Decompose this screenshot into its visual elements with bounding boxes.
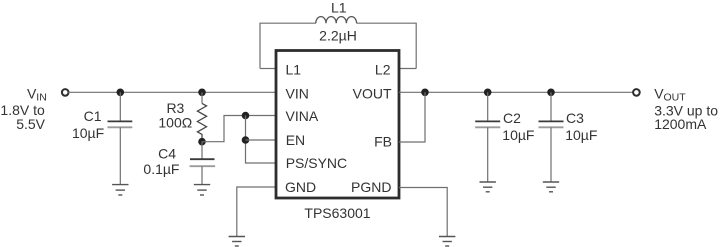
terminal VOUT (output open circle) bbox=[633, 89, 640, 96]
wire VINA pin bbox=[246, 115, 277, 117]
label C4 value bbox=[143, 146, 179, 178]
svg-text:L1: L1 bbox=[286, 61, 302, 77]
svg-text:L2: L2 bbox=[375, 61, 391, 77]
node VIN label bbox=[0, 85, 46, 132]
wire C2 bottom lead bbox=[487, 127, 489, 182]
wire FB feedback bbox=[399, 92, 425, 142]
wire VINA to PS/SYNC vertical bbox=[246, 116, 277, 164]
pin labels left bbox=[285, 61, 347, 195]
svg-text:2.2µH: 2.2µH bbox=[319, 28, 357, 44]
terminal VIN (input open circle) bbox=[62, 89, 69, 96]
svg-text:C2: C2 bbox=[503, 110, 521, 126]
wire EN pin bbox=[246, 139, 277, 141]
wire L1 pin bbox=[260, 68, 276, 70]
svg-text:EN: EN bbox=[286, 132, 305, 148]
resistor R3 bbox=[197, 103, 206, 141]
svg-text:10µF: 10µF bbox=[502, 127, 534, 143]
label C3 value bbox=[565, 110, 597, 143]
svg-text:PGND: PGND bbox=[351, 179, 391, 195]
svg-text:100Ω: 100Ω bbox=[158, 115, 192, 131]
svg-text:VIN: VIN bbox=[286, 85, 309, 101]
wire inductor loop right bbox=[357, 23, 417, 68]
svg-text:10µF: 10µF bbox=[72, 125, 104, 141]
label C1 value bbox=[72, 108, 104, 141]
wire C2 top lead bbox=[487, 92, 489, 121]
svg-text:PS/SYNC: PS/SYNC bbox=[286, 155, 347, 171]
junction dot C1/VIN bbox=[117, 89, 125, 97]
label R3 value bbox=[158, 100, 192, 131]
capacitor C3 bbox=[539, 121, 564, 127]
svg-text:10µF: 10µF bbox=[565, 127, 597, 143]
svg-text:C4: C4 bbox=[158, 146, 176, 162]
ground (C3) bbox=[543, 182, 559, 192]
label C2 value bbox=[502, 110, 534, 143]
inductor L1 bbox=[316, 17, 357, 24]
ground (C1) bbox=[112, 185, 128, 195]
wire GND pin bbox=[237, 187, 276, 237]
svg-text:0.1µF: 0.1µF bbox=[143, 161, 179, 177]
wire inductor loop left bbox=[260, 23, 316, 68]
wire C3 bottom lead bbox=[550, 127, 552, 182]
svg-text:C3: C3 bbox=[566, 110, 584, 126]
svg-text:VOUT: VOUT bbox=[353, 85, 392, 101]
junction dot EN bbox=[242, 136, 250, 144]
svg-text:GND: GND bbox=[285, 179, 316, 195]
junction dot R3/VIN bbox=[198, 89, 206, 97]
pin labels right bbox=[351, 61, 392, 195]
wire PGND pin bbox=[399, 188, 447, 237]
wire C1 top lead bbox=[119, 92, 121, 121]
capacitor C4 bbox=[190, 159, 216, 166]
svg-text:VINA: VINA bbox=[286, 108, 319, 124]
ground (C2) bbox=[480, 182, 496, 192]
wire VOUT rail bbox=[399, 91, 633, 93]
svg-text:TPS63001: TPS63001 bbox=[304, 205, 370, 221]
ground (C4) bbox=[194, 185, 210, 195]
wire C3 top lead bbox=[550, 92, 552, 121]
wire R3 top lead bbox=[201, 92, 203, 103]
junction dot C2/VOUT bbox=[484, 89, 492, 97]
capacitor C1 bbox=[108, 121, 133, 127]
ground (GND pin) bbox=[229, 237, 245, 247]
svg-text:1200mA: 1200mA bbox=[654, 116, 707, 132]
wire VIN rail bbox=[68, 91, 276, 93]
wire R3 bottom to VINA branch bbox=[202, 116, 246, 142]
junction dot VINA bbox=[242, 112, 250, 120]
svg-text:C1: C1 bbox=[84, 108, 102, 124]
svg-text:5.5V: 5.5V bbox=[16, 116, 45, 132]
ground (PGND pin) bbox=[439, 237, 455, 247]
node VOUT label bbox=[654, 85, 718, 132]
op-amp U1 TPS63001 box bbox=[276, 51, 399, 199]
wire C1 bottom lead bbox=[119, 127, 121, 184]
svg-text:L1: L1 bbox=[331, 0, 347, 15]
capacitor C2 bbox=[475, 121, 500, 127]
wire L2 pin bbox=[399, 68, 416, 70]
junction dot C3/VOUT bbox=[547, 89, 555, 97]
junction dot R3/C4 bbox=[198, 138, 206, 146]
wire C4 top lead bbox=[201, 142, 203, 160]
wire C4 bottom lead bbox=[201, 166, 203, 184]
svg-text:FB: FB bbox=[374, 133, 392, 149]
junction dot FB/VOUT bbox=[421, 89, 429, 97]
